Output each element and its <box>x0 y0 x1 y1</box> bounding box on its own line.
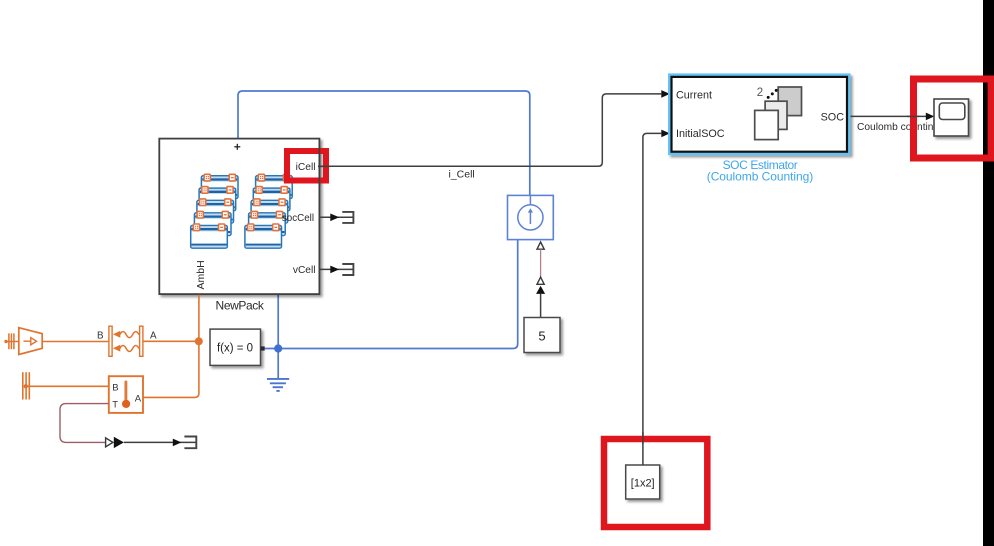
wire: vCell to terminator <box>319 268 353 270</box>
wire: socCell to terminator <box>319 216 353 218</box>
red highlight: [1x2] block <box>604 439 707 527</box>
wire [1x2] to InitialSOC input <box>643 133 661 465</box>
svg-text:5: 5 <box>538 329 545 344</box>
wire overdraw: NewPack border over red <box>318 146 320 186</box>
wire to terminator <box>124 441 196 443</box>
maroon PS wire <box>540 249 542 277</box>
Simulink-PS converter (trapezoid) <box>19 328 42 355</box>
svg-text:2: 2 <box>757 87 763 99</box>
svg-text:socCell: socCell <box>282 213 314 224</box>
port tick inside NewPack bottom <box>277 287 279 293</box>
svg-text:i_Cell: i_Cell <box>449 169 475 181</box>
svg-text:SOC: SOC <box>821 112 845 124</box>
node: blue junction <box>274 344 282 352</box>
thermometer icon <box>124 382 127 402</box>
wire: blue vertical NewPack bottom port to ground <box>277 295 279 379</box>
wire SOC output to scope <box>851 115 927 117</box>
svg-text:[1x2]: [1x2] <box>631 477 655 489</box>
red highlight: iCell port <box>287 151 326 181</box>
svg-text:vCell: vCell <box>293 265 316 276</box>
wire overdraw: scope wire over red <box>907 115 919 117</box>
wire: iCell output stub <box>319 165 323 167</box>
wire overdraw: iCell wire over red <box>318 165 331 167</box>
black sidebar strip at right edge <box>983 0 994 546</box>
svg-text:B: B <box>97 331 104 342</box>
terminator vCell <box>342 264 353 275</box>
terminator socCell <box>342 212 353 223</box>
svg-text:f(x) = 0: f(x) = 0 <box>217 342 253 354</box>
wire from constant 5 <box>540 294 542 317</box>
block NewPack <box>159 139 319 313</box>
ground (electrical reference, blue) <box>267 379 289 391</box>
block constant 5 <box>524 318 560 353</box>
maroon wire from T port to PS converter <box>60 404 109 443</box>
terminator (T signal) <box>184 437 196 449</box>
S-PS converter triangles <box>537 277 544 284</box>
block constant [1x2] <box>626 465 660 499</box>
wire iCell to Current input <box>324 94 662 166</box>
svg-text:T: T <box>112 399 118 410</box>
temperature sensor block <box>109 376 143 413</box>
PS-Simulink converter triangles <box>106 438 113 447</box>
svg-text:Coulomb counting: Coulomb counting <box>857 122 939 133</box>
svg-text:Current: Current <box>676 89 712 101</box>
block SOC Estimator <box>670 76 848 184</box>
svg-text:A: A <box>135 393 142 404</box>
wire AmbH vertical through junction down to sensor A level <box>143 295 199 398</box>
wire convective A to junction <box>143 340 199 342</box>
convective heat transfer block <box>109 326 143 356</box>
wire: blue + net from NewPack top to current sensor top <box>238 91 530 195</box>
block f(x)=0 (solver configuration) <box>210 329 265 365</box>
orange network: connection port comb 1 <box>5 333 19 349</box>
connection port comb 2 (tall) <box>23 372 109 399</box>
PS control port hollow triangle under sensor <box>537 242 544 249</box>
red highlight: scope <box>914 79 992 158</box>
svg-text:B: B <box>112 382 118 393</box>
+ port label <box>234 144 240 150</box>
svg-text:InitialSOC: InitialSOC <box>676 128 725 140</box>
icon stacked pages <box>778 87 801 116</box>
battery stack left column <box>201 174 238 198</box>
svg-text:NewPack: NewPack <box>216 299 265 313</box>
wire: blue net current sensor bottom to f(x)=0 port <box>265 240 518 349</box>
block scope <box>934 99 969 136</box>
current sensor block <box>508 195 554 239</box>
svg-text:A: A <box>150 331 157 342</box>
svg-text:AmbH: AmbH <box>195 260 207 289</box>
wire overdraw: [1x2] wire over red <box>642 432 644 444</box>
svg-text:iCell: iCell <box>296 162 316 173</box>
svg-text:(Coulomb Counting): (Coulomb Counting) <box>707 170 814 184</box>
wire converter to convective block B <box>42 341 109 343</box>
battery stack right column <box>256 174 293 198</box>
node: orange junction <box>195 337 203 345</box>
